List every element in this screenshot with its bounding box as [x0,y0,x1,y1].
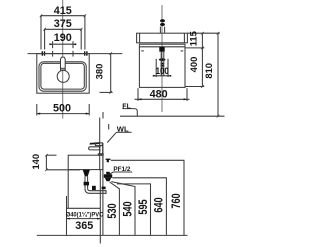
svg-text:140: 140 [30,154,41,170]
svg-text:500: 500 [53,102,71,114]
popup drain funnel [83,170,90,177]
arrow 190 left [50,43,53,45]
tick 810 bottom [217,115,220,118]
svg-text:FL: FL [122,103,131,110]
dim line 100 [153,75,172,77]
hinge dash left [141,50,144,52]
valve neck [106,172,110,175]
arrow 500 left [37,113,40,115]
PF1-2 leader [109,172,113,175]
svg-text:480: 480 [150,88,168,100]
dim line 115-400 [201,33,203,86]
cabinet front [139,44,185,87]
bracket 530 leader [110,182,120,235]
floor line FL right view [120,115,225,117]
svg-text:PF1/2: PF1/2 [113,166,130,173]
tick 140 bottom [45,169,48,172]
elbow joint nut [92,186,96,190]
tick 140 top [45,154,48,157]
faucet spout [89,147,101,150]
drain circle [57,70,69,82]
faucet cap [95,143,102,146]
dim line 140 [45,155,47,170]
arrow 190 right [73,43,76,45]
ext 365 left [66,196,68,235]
wall upper line [99,118,101,170]
arrow 365 left [67,218,70,220]
ext 115-400 split [185,47,204,49]
arrow 500 right [86,113,89,115]
faucet front body [159,27,161,34]
svg-text:Ø40(1¼")PVC: Ø40(1¼")PVC [66,211,104,218]
ext 500 right [88,104,90,116]
svg-text:415: 415 [54,5,72,17]
ext 380 bottom [100,91,113,93]
pipe end cap [105,190,107,194]
ext cabinet bottom to dim [185,86,204,88]
arrow 480 right [184,98,187,100]
ext 365 right [99,208,101,243]
svg-text:530: 530 [107,203,119,218]
faucet lever [90,142,100,144]
dim line 365 [67,218,101,220]
bolt tick left 2 [44,51,46,55]
svg-text:400: 400 [188,57,199,73]
WL underline [116,131,131,133]
centerline front view [161,5,163,112]
FL leader underline [122,109,137,117]
bracket 760 [111,160,184,235]
ceramic slab front [137,33,188,43]
faucet plan [61,57,66,70]
svg-text:760: 760 [171,193,183,208]
ext 100 left [155,59,157,77]
cabinet side right [99,170,101,209]
bowl inner rim [41,63,84,89]
svg-text:375: 375 [54,18,72,30]
bracket 595 [117,184,151,236]
wall stub above [102,112,104,119]
arrow 100 left [153,75,156,77]
svg-text:810: 810 [203,63,214,79]
dim line 380 vertical [110,54,112,93]
tick 415 left [40,14,42,17]
wall line section [102,143,104,235]
dim line 810 [217,33,219,116]
bolt tick right 2 [86,51,88,55]
faucet front body right [164,27,166,34]
wall line plan [28,53,123,55]
wall pipe flange [102,187,106,190]
PF1-2 underline [113,171,132,173]
svg-text:540: 540 [122,201,134,216]
WL leader [107,132,116,142]
tick 375 left [43,28,45,31]
drain nut [159,58,166,61]
faucet ring lower [160,23,165,26]
svg-text:100: 100 [156,65,169,76]
ceramic inner left [139,33,141,43]
tick 375 right [80,28,82,31]
svg-text:380: 380 [94,64,105,80]
ext top ceramic to dims [187,32,219,34]
hole mark right B [72,51,74,57]
cabinet bottom [67,207,101,209]
faucet ring upper [160,19,165,22]
elbow inner [88,189,106,191]
bolt tick left 1 [41,51,43,55]
dim line 480 [135,98,190,100]
drain pipe right line [163,52,165,76]
valve taper [105,178,111,182]
hole mark left A [52,51,54,57]
tick 810 top [217,32,220,35]
arrow 480 left [138,98,141,100]
ext 480 right [186,88,188,101]
cabinet inner top line [139,46,185,48]
tick 115 top [201,32,204,35]
drain tail dark [159,47,164,52]
faucet base [98,154,103,155]
ext 140 top [46,154,56,156]
floor line FL bottom [37,234,188,236]
dim line 415 [41,16,85,50]
basin box section [68,155,103,169]
drain fitting upper [161,63,164,65]
valve body [104,174,112,178]
arrow 365 right [97,218,100,220]
tail nut [84,182,89,186]
bolt tick right 1 [84,51,86,55]
faucet body column [100,146,103,154]
svg-text:115: 115 [187,31,198,46]
tail pipe left [84,176,86,188]
ext tick 190 left [52,41,54,48]
ext tick 190 right [72,41,74,48]
basin outline 500x380 [37,54,89,94]
wall bracket [106,159,111,163]
bowl outer rim [39,62,86,91]
svg-text:640: 640 [153,197,165,212]
ext 100 right [167,59,169,77]
ext 500 left [36,104,38,116]
ext 480 left [137,88,139,101]
bracket 640 [112,178,166,236]
svg-text:WL: WL [117,124,129,133]
arrow 100 right [168,75,171,77]
cabinet side left [67,170,69,209]
centerline plan view [62,0,64,119]
ceramic inner right [183,33,185,43]
wl stub [108,124,110,130]
tick 115-400 mid [201,47,204,50]
drain pipe left line [160,52,162,76]
dim line 375 [45,29,82,49]
faucet collar line [61,67,66,69]
dim line 190 [49,43,76,45]
elbow outer [85,189,106,194]
hinge dash right [181,50,184,52]
svg-text:190: 190 [54,32,72,44]
bracket 540 leader [111,182,135,236]
svg-text:595: 595 [138,199,150,215]
dim line 500 [37,113,89,115]
tick 380 top [109,52,112,55]
tick 380 bottom [109,91,112,94]
ext 140 bottom [46,169,80,171]
tick 400 bottom [201,85,204,88]
tick 415 right [84,14,86,17]
tail pipe right [87,176,89,188]
svg-text:365: 365 [75,220,93,232]
drain fitting lower [161,65,164,67]
